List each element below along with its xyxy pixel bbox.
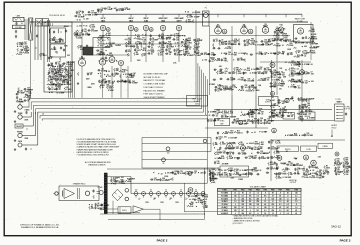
sync chain parts [233,119,235,121]
svg-text:.005: .005 [219,66,222,68]
svg-text:D SET DIAL TO 1620 KC: D SET DIAL TO 1620 KC [144,86,164,89]
oscillator parts [98,69,100,71]
svg-text:R8: R8 [306,169,308,171]
svg-text:270: 270 [291,70,294,72]
svg-text:C26: C26 [274,72,277,74]
svg-text:.22: .22 [211,61,213,63]
svg-text:R55: R55 [109,53,112,55]
wire horiz top line [271,139,345,141]
svg-text:1 MEG: 1 MEG [187,42,193,44]
loop capacitor C40 [166,147,170,151]
svg-text:120: 120 [271,198,274,200]
svg-text:R38: R38 [196,45,199,47]
svg-text:55 65 80 100 140 16: 55 65 80 100 140 16 [49,15,65,17]
svg-text:20: 20 [27,101,29,103]
IF strip parts row 2 [200,53,202,55]
svg-text:.01: .01 [100,11,102,13]
capacitor C9 [87,73,89,75]
wire feedback loop lines [142,143,211,145]
svg-text:95: 95 [272,192,274,194]
dial parts [36,35,38,37]
svg-text:R32: R32 [281,82,284,84]
svg-text:OUTPUT: OUTPUT [290,182,297,184]
svg-text:.01: .01 [254,132,256,134]
svg-text:.001: .001 [121,177,124,179]
tube V12 [270,63,275,68]
svg-text:.02: .02 [273,77,275,79]
wire IF stage links [100,43,185,45]
tuning capacitor gang [44,25,72,27]
svg-text:R9: R9 [225,131,227,133]
wire bus fan horizontal lines [29,10,196,108]
vert lower parts [214,168,216,172]
svg-text:R57: R57 [232,85,235,87]
svg-text:R33: R33 [205,195,208,197]
svg-text:R23: R23 [80,45,83,47]
svg-text:C33: C33 [291,114,294,116]
svg-text:R10: R10 [230,131,233,133]
svg-text:10 MMF: 10 MMF [274,80,280,82]
wire lower left vertical [184,183,186,212]
svg-text:C22: C22 [91,29,94,31]
tuner coil L3 [57,29,59,30]
svg-text:40: 40 [180,190,182,192]
svg-text:R58: R58 [137,37,140,39]
svg-text:1620 KC: 1620 KC [98,44,106,46]
svg-text:R28: R28 [272,111,275,113]
detector tube V11 [297,28,303,34]
svg-text:R10: R10 [319,170,322,172]
svg-text:RATIO DET: RATIO DET [295,18,306,21]
svg-text:R7: R7 [143,38,145,40]
svg-text:R53: R53 [67,71,70,73]
svg-text:C21: C21 [337,161,340,163]
svg-text:.001: .001 [308,114,311,116]
svg-text:1.2: 1.2 [257,192,259,194]
svg-text:PIN8: PIN8 [286,190,290,192]
svg-text:C20: C20 [161,41,164,43]
IF amp tube V9 [262,27,269,34]
svg-text:R25: R25 [78,36,81,38]
svg-text:270: 270 [236,171,239,173]
svg-text:270 MMF: 270 MMF [306,135,313,137]
svg-text:.22: .22 [241,154,243,156]
svg-text:R57: R57 [261,78,264,80]
svg-text:R15: R15 [224,111,227,113]
svg-text:R55: R55 [241,78,244,80]
svg-text:C29: C29 [338,172,341,174]
svg-text:C27: C27 [248,156,251,158]
svg-text:R33: R33 [230,168,233,170]
svg-text:.005: .005 [217,163,220,165]
svg-text:R32: R32 [25,51,28,53]
svg-text:HOLD: HOLD [332,128,337,130]
svg-text:R3: R3 [249,89,251,91]
svg-text:.01: .01 [217,120,219,122]
svg-text:20: 20 [297,173,299,175]
left column lower parts [16,42,18,46]
svg-text:.01: .01 [191,199,193,201]
svg-text:C57: C57 [154,178,157,180]
svg-text:R26: R26 [160,53,163,55]
horiz cluster A [277,156,282,161]
svg-text:20: 20 [252,73,254,75]
svg-text:R5: R5 [215,142,217,144]
IF mid extra parts [216,71,218,75]
svg-text:-8: -8 [287,195,289,197]
svg-text:R28: R28 [346,169,349,171]
detector parts [294,37,296,39]
svg-text:5 MMF: 5 MMF [20,92,25,94]
svg-text:C53: C53 [100,49,103,51]
svg-text:20: 20 [277,54,279,56]
svg-text:C18: C18 [288,39,291,41]
svg-text:1 MEG: 1 MEG [261,80,267,82]
svg-text:C39: C39 [217,173,220,175]
tone control R11 [18,115,22,119]
svg-text:250: 250 [256,198,259,200]
svg-text:C15: C15 [270,39,273,41]
contrast box [300,112,315,120]
svg-text:5 MMF: 5 MMF [107,9,112,11]
resistor R5 [77,72,79,76]
B+ node dots [204,193,205,194]
svg-text:VIDEO DET: VIDEO DET [158,18,168,20]
svg-text:20: 20 [184,35,186,37]
wire bottom run 1 [100,213,205,215]
svg-text:C22: C22 [276,37,279,39]
wire converter plate [81,22,83,58]
svg-text:1 MEG: 1 MEG [176,35,182,37]
svg-text:.005: .005 [270,158,273,160]
svg-text:R29: R29 [25,46,28,48]
voice coil winding [77,188,79,199]
svg-text:.005: .005 [69,66,72,68]
power transformer T3 [104,173,107,214]
svg-text:C36: C36 [176,49,179,51]
vertical oscillator parts [213,142,215,146]
svg-text:.02: .02 [189,49,191,51]
svg-text:20: 20 [165,190,167,192]
svg-text:C9: C9 [221,40,223,42]
svg-text:20: 20 [305,38,307,40]
svg-text:.02: .02 [187,11,189,13]
svg-text:R57: R57 [51,79,54,81]
right lower parts [299,105,301,107]
ground converter [77,82,79,83]
band switch box A [36,19,43,27]
horiz cluster C [335,152,339,156]
svg-text:C30: C30 [24,48,27,50]
svg-text:120: 120 [256,204,259,206]
svg-text:C5: C5 [51,56,53,58]
svg-text:R33: R33 [188,38,191,40]
svg-text:C25: C25 [168,48,171,50]
svg-text:20: 20 [108,71,110,73]
svg-text:.001: .001 [236,148,239,150]
sync section box [215,118,230,125]
svg-text:R56: R56 [225,86,228,88]
svg-text:.8: .8 [265,198,266,200]
svg-text:C CONNECT GEN TO ANT: C CONNECT GEN TO ANT [144,83,166,86]
svg-text:270 MMF: 270 MMF [247,80,254,82]
svg-text:.02: .02 [205,199,207,201]
svg-text:12BE6: 12BE6 [79,58,85,60]
svg-text:C19: C19 [276,31,279,33]
loop part C42 [203,139,207,143]
tube V15 [238,120,242,124]
svg-text:C59: C59 [251,85,254,87]
svg-text:C50: C50 [301,112,304,114]
svg-text:R7: R7 [326,166,328,168]
svg-text:C53: C53 [180,171,183,173]
svg-text:.01: .01 [272,97,274,99]
svg-text:-8: -8 [272,201,274,203]
svg-text:20: 20 [246,45,248,47]
svg-text:120: 120 [295,192,298,194]
svg-text:5 MMF: 5 MMF [240,60,245,62]
svg-text:C22: C22 [217,118,220,120]
switch SW1 [15,124,23,128]
svg-text:270: 270 [91,208,94,210]
svg-text:C17: C17 [100,10,103,12]
svg-text:C28: C28 [254,156,257,158]
svg-text:TO PIN: TO PIN [345,107,350,109]
capacitor C3 [15,35,17,37]
svg-text:C30: C30 [176,38,179,40]
svg-text:C1: C1 [128,44,130,46]
wire transformer leads [107,176,131,178]
svg-text:R11: R11 [237,130,240,132]
svg-text:1 MEG: 1 MEG [217,170,223,172]
svg-text:R52: R52 [300,116,303,118]
svg-text:C15: C15 [326,172,329,174]
svg-text:1ST IF: 1ST IF [100,18,105,20]
svg-text:C8: C8 [103,207,105,209]
svg-text:.22: .22 [218,87,220,89]
svg-text:.005: .005 [311,73,314,75]
svg-text:270 MMF: 270 MMF [66,64,73,66]
output transformer secondary [85,191,89,195]
svg-text:R15: R15 [247,146,250,148]
svg-text:R13: R13 [151,49,154,51]
volume control R10 [18,105,22,109]
svg-text:.005: .005 [307,105,310,107]
svg-text:C23: C23 [169,45,172,47]
svg-text:20: 20 [264,54,266,56]
svg-text:.05: .05 [21,23,23,25]
wire audio lines [99,208,118,210]
svg-text:.22: .22 [177,46,179,48]
svg-text:10 MMF: 10 MMF [251,87,257,89]
svg-text:100 MMF: 100 MMF [313,47,320,49]
wire oscillator row [86,54,130,56]
svg-text:20-40-40: 20-40-40 [194,101,200,103]
svg-text:R11: R11 [325,170,328,172]
svg-text:C37: C37 [187,45,190,47]
svg-text:250: 250 [256,201,259,203]
svg-text:PIN3: PIN3 [249,190,253,192]
svg-text:R51: R51 [270,162,273,164]
svg-text:R38: R38 [259,52,262,54]
svg-text:.001: .001 [244,87,247,89]
wire sync row [205,127,268,129]
svg-text:C20: C20 [306,133,309,135]
right column parts lower [270,100,271,101]
svg-text:.22: .22 [278,112,280,114]
svg-text:C28: C28 [273,75,276,77]
svg-text:.22: .22 [144,34,146,36]
svg-text:C3: C3 [51,87,53,89]
svg-text:250: 250 [234,207,237,209]
svg-text:270 MMF: 270 MMF [297,43,304,45]
svg-text:C8: C8 [215,39,217,41]
svg-text:R57: R57 [291,74,294,76]
svg-text:R11: R11 [234,39,237,41]
svg-text:R28: R28 [176,34,179,36]
svg-text:ON-OFF: ON-OFF [16,126,22,128]
svg-text:.02: .02 [151,43,153,45]
svg-text:C2: C2 [297,86,299,88]
coupling capacitors row [98,73,99,74]
tube V8b [248,29,253,34]
wire AVC verticals [68,61,70,98]
svg-text:.02: .02 [312,170,314,172]
svg-text:270 MMF: 270 MMF [229,116,236,118]
tuner capacitor C7 [48,57,50,59]
tuner capacitor C6 [63,49,65,51]
svg-text:80: 80 [163,163,165,165]
svg-text:R18: R18 [319,176,322,178]
svg-text:270: 270 [19,54,22,56]
svg-text:R60: R60 [297,80,300,82]
right column parts upper [270,70,272,72]
svg-text:R22: R22 [345,161,348,163]
svg-text:PIN7: PIN7 [279,190,283,192]
svg-text:R50: R50 [313,36,316,38]
wire bottom run 2 [108,218,205,220]
svg-text:95V: 95V [191,202,194,204]
capacitor C8 [86,45,88,47]
svg-text:10 MMF: 10 MMF [154,180,160,182]
svg-text:PAGE 3: PAGE 3 [340,239,351,243]
svg-text:.001: .001 [108,76,111,78]
selenium rectifier M1 [112,189,123,200]
svg-text:.005: .005 [248,174,251,176]
svg-text:20: 20 [305,73,307,75]
svg-text:C9: C9 [143,42,145,44]
AC plug P1 [99,191,103,195]
tuner resistor R1 [49,38,51,42]
tube V18 [188,188,193,193]
filter chain lower ticks [138,198,140,200]
svg-text:20: 20 [151,54,153,56]
tuner parts lower cluster [47,65,51,67]
svg-text:C55: C55 [218,86,221,88]
svg-text:C15: C15 [151,52,154,54]
svg-text:C27: C27 [337,170,340,172]
svg-text:TUBE: TUBE [336,101,340,103]
wire lower horizontal [185,211,218,213]
svg-text:.01: .01 [284,62,286,64]
svg-text:H LIN: H LIN [306,149,311,151]
svg-text:270: 270 [279,88,282,90]
electrolytic can FL1 [203,11,210,26]
converter tube V1 [78,59,85,66]
svg-text:C16: C16 [304,54,307,56]
wire right column main [271,60,273,122]
svg-text:C16: C16 [254,147,257,149]
svg-text:R50: R50 [247,68,250,70]
svg-text:.22: .22 [106,74,108,76]
tuner capacitor C5 [59,40,61,42]
svg-text:C30: C30 [217,161,220,163]
svg-text:12: 12 [272,213,274,215]
svg-text:PIN9: PIN9 [295,190,299,192]
svg-text:.005: .005 [242,115,245,117]
svg-text:BRIGHT: BRIGHT [305,116,311,118]
svg-text:.22: .22 [169,54,171,56]
svg-text:DRIVE: DRIVE [323,146,329,148]
wire IF strip verticals [209,26,211,95]
svg-text:.005: .005 [289,54,292,56]
svg-text:C5: C5 [305,36,307,38]
audio output triangle [133,206,144,213]
svg-text:100 MMF: 100 MMF [285,177,292,179]
svg-text:.005: .005 [19,46,22,48]
svg-text:.001: .001 [210,178,213,180]
wire video long line [214,108,332,110]
svg-text:C20: C20 [228,42,231,44]
svg-text:10 MMF: 10 MMF [59,92,65,94]
wire tuner double vertical [47,20,49,62]
svg-text:PHONO: PHONO [17,131,24,133]
IF strip left entry parts [186,38,188,42]
svg-text:270 MMF: 270 MMF [257,45,264,47]
svg-text:R59: R59 [291,79,294,81]
svg-text:4BQ7: 4BQ7 [263,25,268,28]
output transformer box T4 [59,186,99,201]
svg-text:C56: C56 [247,79,250,81]
svg-text:C39: C39 [27,88,30,90]
speaker SP1 [64,189,75,199]
svg-text:100 MMF: 100 MMF [262,153,269,155]
svg-text:FL: FL [205,8,207,10]
svg-text:6.3: 6.3 [242,195,244,197]
svg-text:270 MMF: 270 MMF [222,163,229,165]
svg-text:5 MMF: 5 MMF [266,123,271,125]
svg-text:3CB6: 3CB6 [144,20,148,22]
svg-text:20: 20 [283,29,285,31]
svg-text:.005: .005 [143,43,146,45]
svg-text:B+: B+ [161,37,163,39]
svg-text:.22: .22 [246,54,248,56]
svg-text:C57: C57 [296,163,299,165]
svg-text:250: 250 [241,198,244,200]
svg-text:.22: .22 [215,115,217,117]
svg-text:.01: .01 [229,154,231,156]
osc adj dark box [83,47,93,55]
svg-text:C18: C18 [215,114,218,116]
svg-text:C55: C55 [59,75,62,77]
IF entry top parts [185,11,186,12]
svg-text:120: 120 [264,207,267,209]
svg-text:12: 12 [234,192,236,194]
svg-text:.02: .02 [242,148,244,150]
tube V14 [300,70,305,75]
svg-text:95: 95 [295,213,297,215]
svg-text:270 MMF: 270 MMF [191,196,198,198]
